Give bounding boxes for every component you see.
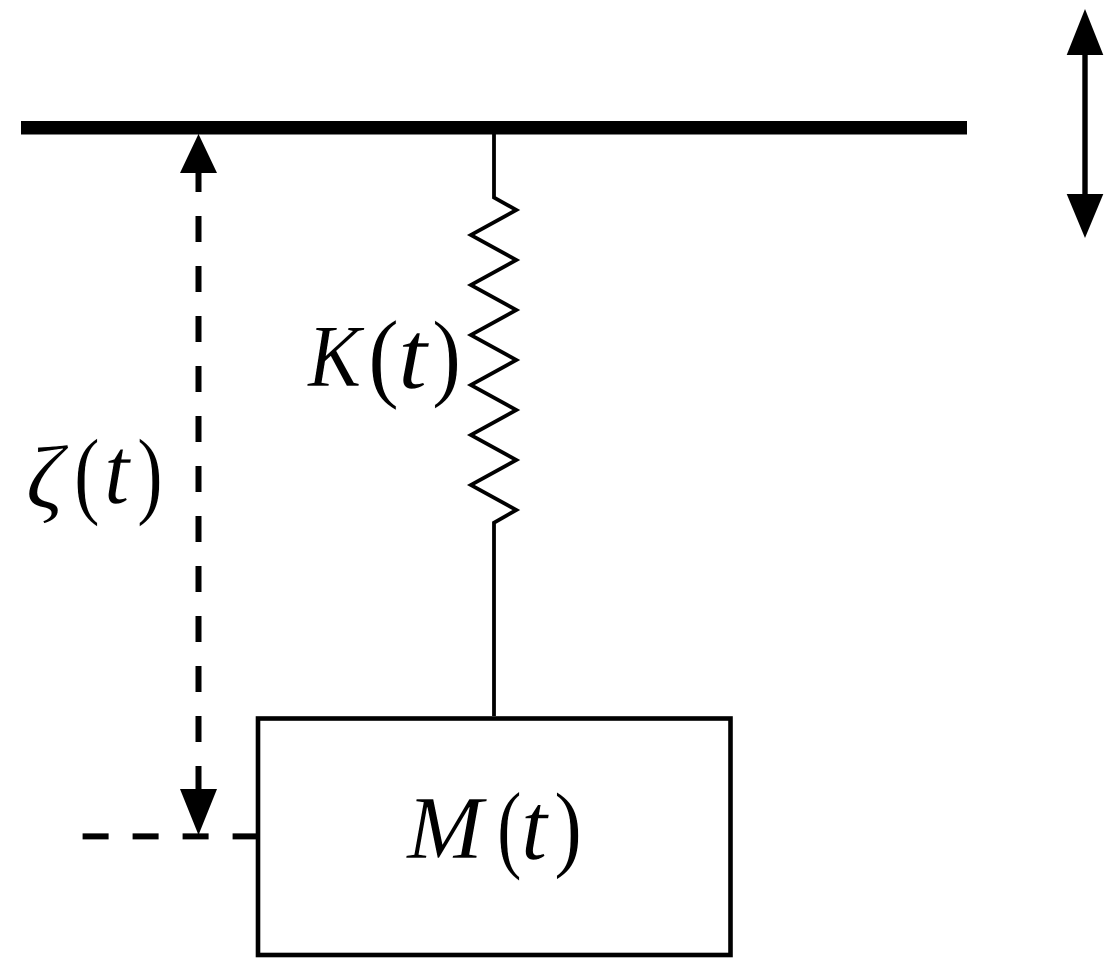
- dimension arrowhead up: [180, 134, 217, 173]
- motion arrowhead up: [1067, 9, 1104, 55]
- label K(t): [308, 313, 361, 402]
- spring K(t): [471, 134, 516, 716]
- ceiling (fixed support): [21, 121, 967, 135]
- dimension line zeta(t) dashed vertical: [196, 166, 202, 790]
- reference level dashed horizontal: [83, 833, 258, 839]
- motion double arrow shaft: [1082, 40, 1087, 210]
- motion arrowhead down: [1067, 194, 1104, 238]
- label zeta(t): [26, 434, 63, 524]
- mass box M(t): [258, 719, 731, 956]
- label M(t): [407, 784, 483, 874]
- dimension arrowhead down: [180, 789, 217, 835]
